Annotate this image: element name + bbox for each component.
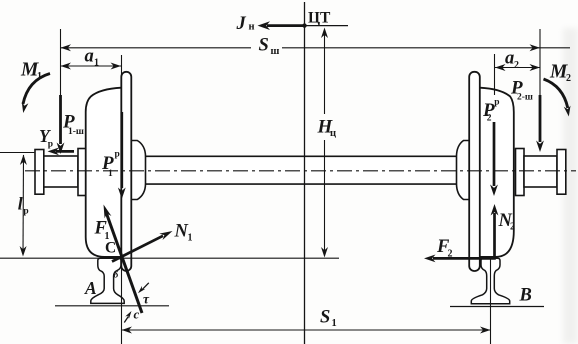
left axle end cap xyxy=(35,150,44,195)
svg-text:р: р xyxy=(494,98,499,108)
dimension l_r xyxy=(22,155,25,254)
left wheel disc xyxy=(86,88,122,257)
svg-text:2: 2 xyxy=(514,60,519,71)
rail A base line xyxy=(55,305,169,307)
pointer c xyxy=(124,317,128,323)
dimension a2 xyxy=(495,67,540,69)
force Y_r xyxy=(56,150,74,153)
svg-text:ЦТ: ЦТ xyxy=(308,9,331,26)
journal top extension stub xyxy=(0,152,34,154)
svg-text:1: 1 xyxy=(188,233,193,244)
force F2 xyxy=(433,257,496,260)
svg-text:A: A xyxy=(84,278,97,298)
force P1^r xyxy=(120,112,123,188)
force J_n xyxy=(267,24,305,27)
svg-text:S: S xyxy=(320,308,330,328)
svg-text:J: J xyxy=(236,14,247,34)
right journal collar xyxy=(516,149,525,196)
scan shading band xyxy=(563,28,578,344)
svg-text:2: 2 xyxy=(487,114,492,124)
CT node dot xyxy=(302,23,306,27)
svg-text:1: 1 xyxy=(332,318,337,329)
svg-text:l: l xyxy=(18,194,23,214)
svg-text:a: a xyxy=(85,47,94,67)
left wheel flange plate xyxy=(121,72,131,271)
svg-text:р: р xyxy=(115,150,120,160)
svg-text:c: c xyxy=(134,307,140,322)
dimension S_sh xyxy=(61,47,571,49)
svg-text:2: 2 xyxy=(510,222,515,233)
svg-text:B: B xyxy=(519,286,532,306)
force N1 xyxy=(112,236,163,262)
right wheel plane extension line xyxy=(494,54,496,95)
left journal load extension line xyxy=(60,29,62,97)
svg-text:C: C xyxy=(105,240,116,257)
svg-text:1-ш: 1-ш xyxy=(68,127,84,137)
svg-text:a: a xyxy=(505,49,514,69)
angle pointer tau xyxy=(142,283,149,291)
left wheel plane extension line xyxy=(121,55,123,344)
svg-text:н: н xyxy=(249,22,255,33)
force F1 and flange contact line xyxy=(107,214,143,314)
left journal collar xyxy=(78,149,87,196)
svg-text:ц: ц xyxy=(330,128,336,139)
dimension S1 xyxy=(122,329,491,331)
svg-text:2: 2 xyxy=(448,249,453,260)
centre axis vertical (through CT) xyxy=(304,2,306,344)
svg-text:S: S xyxy=(259,36,269,56)
svg-text:р: р xyxy=(23,207,28,217)
right hub boss xyxy=(457,141,470,200)
svg-text:1: 1 xyxy=(108,169,113,179)
force P2-sh xyxy=(539,95,542,142)
svg-text:τ: τ xyxy=(143,292,150,307)
dimension a1 xyxy=(61,65,122,67)
force P1-sh xyxy=(59,95,62,144)
svg-text:N: N xyxy=(174,222,189,242)
axle centre line xyxy=(25,170,576,172)
CT reference line xyxy=(305,25,349,27)
right axle end cap xyxy=(557,150,566,195)
right journal load extension line xyxy=(539,29,541,97)
svg-text:1: 1 xyxy=(37,71,42,82)
svg-text:δ: δ xyxy=(114,271,119,281)
left journal xyxy=(44,156,78,187)
force N2 xyxy=(493,213,496,258)
moment M1 xyxy=(23,74,50,105)
rail B xyxy=(471,258,509,304)
svg-text:ш: ш xyxy=(271,46,280,57)
rail B centre / S1 extension line xyxy=(490,258,492,344)
svg-text:р: р xyxy=(48,140,53,150)
right journal xyxy=(524,156,557,187)
right wheel disc xyxy=(480,88,514,257)
right wheel flange plate xyxy=(469,72,480,271)
rail B base line xyxy=(450,306,544,308)
svg-text:2: 2 xyxy=(566,73,571,84)
contact level line xyxy=(0,257,339,259)
dimension H_c xyxy=(324,30,326,114)
axle body xyxy=(144,156,457,184)
rail A xyxy=(91,258,124,303)
moment M2 xyxy=(544,79,568,108)
force P2^r xyxy=(493,122,496,186)
svg-text:2-ш: 2-ш xyxy=(517,93,533,103)
svg-text:1: 1 xyxy=(94,58,99,69)
left hub boss xyxy=(131,141,145,200)
